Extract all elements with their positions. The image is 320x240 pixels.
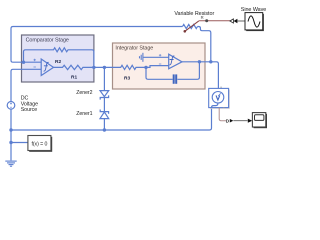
wire to integrator with resistor R3 [104,65,168,69]
junction node zener bottom [103,128,106,131]
zener diode Zener2 [100,91,109,100]
op-amp U1 comparator [34,59,54,76]
svg-text:R1: R1 [71,75,77,81]
wire comparator feedback with resistor R2 [24,48,94,68]
junction node output to top rail [209,60,212,63]
wire comparator output with resistor R1 [54,65,105,69]
subsystem box Comparator Stage [22,35,94,82]
capacitor C1 [173,74,178,83]
svg-text:Zener1: Zener1 [76,111,92,117]
svg-text:f(x) = 0: f(x) = 0 [31,141,47,147]
svg-text:R3: R3 [124,76,130,82]
signal line to scope [233,120,247,122]
wire integrator output to voltmeter [182,62,218,92]
block Scope [252,113,267,129]
wire stub to solver block [11,142,28,144]
svg-text:Zener2: Zener2 [76,90,92,96]
svg-text:Sine Wave: Sine Wave [241,7,266,13]
wire Zener1 to bottom rail [103,119,105,130]
wire variable resistor to right rail jog [198,27,211,62]
junction node R1 output [92,66,95,69]
junction node solver stub [9,141,12,144]
variable resistor (potentiometer) [183,15,204,32]
ground G1 [5,161,16,166]
DC voltage source V1 [7,102,15,110]
arrowhead at scope input [248,119,252,123]
wire bottom rail to voltmeter [11,108,212,130]
voltmeter block [209,87,230,109]
block Sine Wave [245,13,264,31]
junction node rail at DC source [9,128,12,131]
wire zener branch from node to Zener2 [103,67,105,90]
svg-text:Integrator Stage: Integrator Stage [115,45,153,51]
wire integrator feedback with capacitor C1 [146,62,199,80]
PS line sine wave to variable resistor [199,19,245,23]
wire between zeners [103,98,105,112]
svg-text:Source: Source [21,107,38,113]
wire comparator - input from DC source [11,69,41,101]
op-amp U2 integrator [159,54,182,69]
svg-text:R2: R2 [55,59,61,65]
junction node integrator output feedback [198,60,201,63]
subsystem box Integrator Stage [113,43,206,89]
wire DC source down to bottom rail and ground [10,109,12,160]
svg-text:Variable Resistor: Variable Resistor [174,11,214,17]
junction node zener top [103,66,106,69]
wire top rail and comparator + input [11,27,183,63]
PS line voltmeter to converter [219,108,226,121]
junction node comparator feedback [22,61,25,64]
solver configuration block f(x)=0 [28,136,52,152]
junction node integrator input [144,66,147,69]
zener diode Zener1 [100,110,109,119]
ground reference integrator (rotated) [140,53,169,62]
PS-Simulink converter D [226,119,234,124]
svg-text:Comparator Stage: Comparator Stage [26,37,69,43]
label DC Voltage Source [21,96,38,114]
